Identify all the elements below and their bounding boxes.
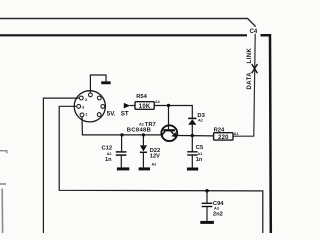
svg-text:A1: A1	[234, 132, 239, 136]
wire base drop to TR7	[168, 106, 170, 131]
svg-text:A2: A2	[107, 152, 112, 156]
wire arrow to R54	[130, 105, 135, 107]
transistor TR7	[127, 122, 177, 141]
crossing marker X on data link wire	[252, 64, 258, 73]
svg-text:A2: A2	[155, 100, 160, 104]
resistor R24	[214, 127, 239, 141]
svg-text:C4: C4	[250, 29, 258, 35]
connector pin bottom-right	[97, 113, 101, 117]
diode D3	[188, 113, 205, 136]
wire DATA LINK horizontal top	[0, 19, 255, 27]
capacitor C94	[200, 189, 224, 222]
connector pin top	[89, 93, 93, 97]
wire emitter rail to R24	[177, 135, 214, 137]
svg-text:C5: C5	[196, 145, 204, 151]
junction C5/D3 node	[191, 134, 194, 137]
svg-text:R54: R54	[136, 94, 147, 100]
signal arrow ST	[124, 103, 131, 109]
connector pin 1	[80, 113, 84, 117]
svg-text:10K: 10K	[139, 104, 151, 110]
junction D22 node	[142, 133, 145, 136]
svg-text:A3: A3	[214, 207, 219, 211]
svg-text:5V.: 5V.	[107, 111, 116, 118]
svg-text:12V: 12V	[150, 154, 160, 160]
connector pin right	[101, 105, 105, 109]
wire pin 2 to left drop	[43, 98, 78, 233]
svg-text:A2: A2	[152, 162, 157, 166]
connector pin top-right	[97, 96, 101, 100]
connector pin 3	[77, 105, 81, 109]
wire R54 to D3 corner	[154, 106, 192, 118]
svg-text:A2: A2	[139, 123, 144, 127]
svg-text:LINK: LINK	[247, 47, 253, 63]
resistor R54	[135, 94, 160, 110]
wire top pin to ground	[90, 75, 106, 93]
junction base node	[167, 104, 170, 107]
ground (chassis bar) top	[101, 81, 110, 84]
svg-text:C12: C12	[102, 145, 113, 151]
svg-text:A2: A2	[198, 119, 203, 123]
junction C12 node	[120, 133, 123, 136]
wire DATA LINK vertical drop	[233, 26, 255, 136]
wire pin 3 to bottom rail	[59, 106, 263, 233]
svg-text:2n2: 2n2	[213, 212, 223, 218]
border corner right (thick)	[261, 35, 271, 233]
svg-text:A1: A1	[197, 152, 202, 156]
border line top (thick)	[0, 34, 247, 36]
faint print remnants left edge	[0, 151, 7, 233]
capacitor C5	[187, 136, 204, 169]
svg-text:ST: ST	[121, 111, 129, 118]
svg-text:DATA: DATA	[247, 72, 253, 90]
svg-text:1n: 1n	[196, 157, 203, 163]
svg-text:220: 220	[218, 135, 229, 141]
svg-text:1n: 1n	[105, 157, 112, 163]
wire pin 1 to base rail	[82, 117, 161, 135]
connector pin 2	[79, 96, 83, 100]
connector BU1 outline	[74, 91, 105, 122]
zener diode D22	[139, 135, 161, 169]
node C4	[249, 27, 259, 35]
svg-text:BC848B: BC848B	[127, 127, 151, 133]
capacitor C12	[102, 135, 130, 169]
